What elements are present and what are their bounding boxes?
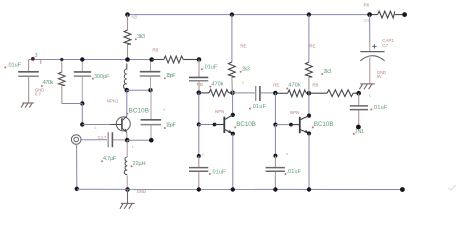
svg-text:RB: RB bbox=[152, 48, 158, 53]
resistor osc output series bbox=[152, 56, 199, 63]
svg-text:.01uF: .01uF bbox=[7, 63, 22, 69]
svg-text:R6: R6 bbox=[364, 2, 370, 7]
svg-text:NB: NB bbox=[132, 15, 138, 20]
wire down to base row bbox=[81, 104, 83, 125]
capacitor 4.7uF coupling bbox=[108, 132, 125, 147]
wire T1 emitter down bbox=[126, 133, 128, 141]
wire: top bus down to 3k3 bbox=[127, 15, 129, 30]
capacitor .01uF stage3 bypass bbox=[266, 156, 285, 190]
capacitor 300pF bbox=[74, 60, 91, 104]
svg-text:RE: RE bbox=[273, 82, 279, 87]
coupling cap .01uF stage2 label bbox=[201, 68, 203, 70]
transistor T1 bbox=[111, 116, 131, 133]
svg-text:NPN1: NPN1 bbox=[107, 98, 119, 103]
svg-text:2k3: 2k3 bbox=[242, 66, 250, 72]
supply series resistor bbox=[372, 11, 402, 18]
junction at 2k3 #2 top bbox=[307, 12, 311, 16]
svg-text:c: c bbox=[202, 152, 204, 157]
wire stage3 base node down bbox=[274, 93, 276, 125]
resistor 470k feedback stage3 bbox=[275, 90, 309, 97]
svg-text:c: c bbox=[369, 93, 371, 98]
supply input terminal bbox=[402, 12, 407, 17]
source bottom lead down to ground bus bbox=[76, 144, 78, 188]
junction at 3k3 top bbox=[125, 12, 130, 17]
junction stage3 base node bbox=[273, 91, 278, 96]
wire T2 emitter to ground bus bbox=[232, 134, 234, 190]
junction T2 collector bbox=[231, 113, 235, 117]
emitter row wire bbox=[127, 139, 151, 141]
wire 470k bottom to 300pF bottom bbox=[62, 103, 83, 105]
junction base row stage3 bbox=[273, 123, 277, 127]
2k3 #2 label bbox=[321, 73, 323, 75]
svg-text:.01uF: .01uF bbox=[251, 104, 267, 110]
junction stage2 collector node bbox=[230, 91, 235, 96]
junction tank bottom bbox=[125, 88, 130, 93]
svg-text:300pF: 300pF bbox=[94, 74, 110, 80]
junction stage3 bypass at bus bbox=[273, 187, 277, 191]
main oscillator node wire (net 3) bbox=[29, 59, 152, 61]
svg-text:RB: RB bbox=[312, 83, 318, 88]
source output wire bbox=[81, 139, 107, 141]
svg-text:BC10B: BC10B bbox=[236, 121, 256, 128]
svg-text:CAP1: CAP1 bbox=[382, 38, 394, 43]
junction 15pF1 top bbox=[149, 57, 154, 62]
svg-text:BC10B: BC10B bbox=[314, 121, 334, 128]
electrolytic CAP1 bbox=[360, 43, 384, 84]
svg-text:BC10B: BC10B bbox=[129, 107, 150, 114]
T2 BC10B label bbox=[234, 126, 236, 128]
svg-text:RE: RE bbox=[240, 44, 246, 49]
svg-text:B1: B1 bbox=[364, 18, 370, 23]
junction T3 emitter at bus bbox=[307, 187, 311, 191]
junction stage3 collector node bbox=[307, 91, 312, 96]
wire to T3 base bbox=[275, 124, 291, 126]
svg-text:0V: 0V bbox=[377, 74, 382, 79]
svg-text:.01uF: .01uF bbox=[287, 169, 302, 175]
wire tank bottom across bbox=[127, 89, 151, 91]
resistor 2k3 #1 bbox=[229, 62, 236, 93]
4.7uF label bbox=[101, 160, 103, 162]
resistor 470k feedback stage2 bbox=[199, 90, 233, 97]
22uH label bbox=[131, 165, 133, 167]
capacitor .01uF output bbox=[350, 93, 368, 125]
wire top bus down to 2k3 #1 bbox=[231, 15, 233, 62]
wire stage2 base node down to decoupling cap bbox=[198, 125, 200, 157]
top supply bus wire bbox=[128, 14, 370, 16]
node 3 anchor junction bbox=[31, 57, 35, 61]
wire top bus down to 2k3 #2 bbox=[308, 15, 310, 62]
junction T2 emitter bbox=[231, 132, 235, 136]
wire to T1 base bbox=[82, 124, 110, 126]
svg-text:15pF: 15pF bbox=[166, 123, 177, 129]
svg-text:JN1: JN1 bbox=[355, 129, 365, 135]
svg-text:0.7: 0.7 bbox=[35, 92, 41, 97]
inductor L tank bbox=[123, 64, 126, 90]
svg-text:NPN: NPN bbox=[290, 110, 299, 115]
svg-text:22µH: 22µH bbox=[133, 161, 146, 167]
svg-text:.01uF: .01uF bbox=[372, 105, 388, 111]
junction at base row corner bbox=[80, 122, 84, 126]
capacitor .01uF coupling stage2 bbox=[189, 60, 208, 93]
small pin stub bbox=[40, 60, 42, 64]
svg-text:3: 3 bbox=[35, 53, 38, 59]
inductor 22uH emitter bbox=[126, 140, 128, 157]
resistor 2k3 #2 bbox=[306, 62, 313, 93]
junction T2 emitter at bus bbox=[231, 187, 235, 191]
transistor T2 bbox=[215, 115, 234, 134]
bottom right terminal bbox=[400, 187, 405, 192]
junction T3 emitter bbox=[307, 131, 311, 135]
capacitor 15pF tank bbox=[140, 60, 161, 91]
3k3 value label bbox=[135, 38, 137, 40]
T3 BC10B label bbox=[312, 126, 314, 128]
junction emitter row left bbox=[125, 138, 130, 143]
wire: 3k3 down to node 3 line bbox=[127, 44, 129, 59]
svg-text:c: c bbox=[242, 80, 244, 85]
.01uF series label bbox=[249, 108, 251, 110]
junction bypass cap at bus bbox=[197, 187, 201, 191]
junction at tank top (127.5,59.5) bbox=[125, 57, 130, 62]
wire tank node down to T1 collector bbox=[126, 90, 128, 116]
faint artifact mark bottom right bbox=[448, 185, 456, 190]
cap pin dot stage3 bbox=[273, 154, 277, 158]
resistor 3k3 bbox=[124, 30, 131, 44]
junction base row stage2 bbox=[197, 122, 201, 126]
wire stage2 base node down bbox=[198, 93, 200, 125]
.01uF output label bbox=[370, 109, 372, 111]
junction 300pF bottom bbox=[80, 101, 84, 105]
.01uF bypass label bbox=[209, 173, 211, 175]
output terminal JN1 bbox=[356, 125, 361, 130]
junction output node bbox=[356, 91, 361, 96]
svg-text:RE: RE bbox=[309, 44, 315, 49]
junction 15pF1 bottom bbox=[148, 88, 152, 92]
cap pin dot bbox=[197, 154, 201, 158]
junction bottom left corner bbox=[75, 187, 79, 191]
resistor 470k feedback stage2 label bbox=[209, 86, 211, 88]
junction osc node to coupling cap bbox=[197, 57, 202, 62]
svg-text:470k: 470k bbox=[211, 81, 223, 87]
svg-text:RB: RB bbox=[197, 82, 203, 87]
svg-text:.01uF: .01uF bbox=[211, 169, 226, 175]
junction 300pF top bbox=[80, 57, 84, 61]
.01uF stage3 bypass label bbox=[285, 173, 287, 175]
series cap .01uF stage3 coupling: wire from stage2 collector node bbox=[233, 92, 255, 94]
svg-text:C4.7: C4.7 bbox=[98, 135, 108, 140]
junction at 2k3 #1 top bbox=[230, 12, 234, 16]
2k3 #1 label bbox=[240, 71, 242, 73]
junction T3 collector bbox=[307, 114, 311, 118]
ground bus bottom wire bbox=[77, 188, 403, 190]
svg-text:470k: 470k bbox=[288, 83, 301, 89]
svg-text:C7: C7 bbox=[382, 43, 388, 48]
junction 470k top bbox=[60, 58, 63, 61]
wire stage2 collector down to T2 bbox=[232, 93, 234, 115]
svg-text:2k3: 2k3 bbox=[323, 69, 331, 75]
transistor T3 bbox=[291, 116, 309, 134]
ground symbol mid bbox=[120, 190, 135, 209]
capacitor .01uF stage2 bypass bbox=[189, 156, 208, 190]
ground top right bbox=[359, 84, 374, 89]
svg-text:4.7µF: 4.7µF bbox=[103, 156, 117, 162]
capacitor .01uF series stage3 bbox=[256, 86, 260, 101]
svg-text:c: c bbox=[286, 151, 288, 156]
wire to T2 base bbox=[199, 124, 215, 126]
junction emitter row right bbox=[149, 138, 154, 143]
svg-text:470k: 470k bbox=[43, 80, 54, 86]
signal source SG1 bbox=[71, 135, 81, 145]
capacitor 15pF feedback bbox=[141, 90, 162, 140]
wire stage3 collector down to T3 bbox=[308, 93, 310, 115]
wire top bus down to CAP1 bbox=[369, 15, 371, 43]
svg-text:NPN: NPN bbox=[215, 109, 224, 114]
svg-text:3k3: 3k3 bbox=[137, 34, 145, 40]
T3 base pin dot bbox=[289, 123, 293, 127]
resistor 470k (input bias) bbox=[59, 60, 66, 104]
svg-text:15pF: 15pF bbox=[166, 73, 177, 79]
transistor T1 BC10B value label bbox=[126, 113, 128, 115]
svg-text:.01uF: .01uF bbox=[203, 64, 218, 70]
resistor 470k feedback stage3 label bbox=[286, 88, 288, 90]
junction at supply resistor / CAP1 bbox=[367, 12, 372, 17]
output series resistor bbox=[309, 90, 359, 97]
wire T3 emitter to ground bus bbox=[308, 134, 310, 190]
T2 base pin dot bbox=[213, 123, 217, 127]
junction 22uH at ground bus bbox=[125, 187, 130, 192]
junction stage2 base node bbox=[197, 91, 202, 96]
capacitor C input (left .01uF) bbox=[18, 60, 39, 104]
wire stage3 base node down to bypass cap bbox=[274, 125, 276, 156]
ground under input cap bbox=[21, 103, 34, 108]
